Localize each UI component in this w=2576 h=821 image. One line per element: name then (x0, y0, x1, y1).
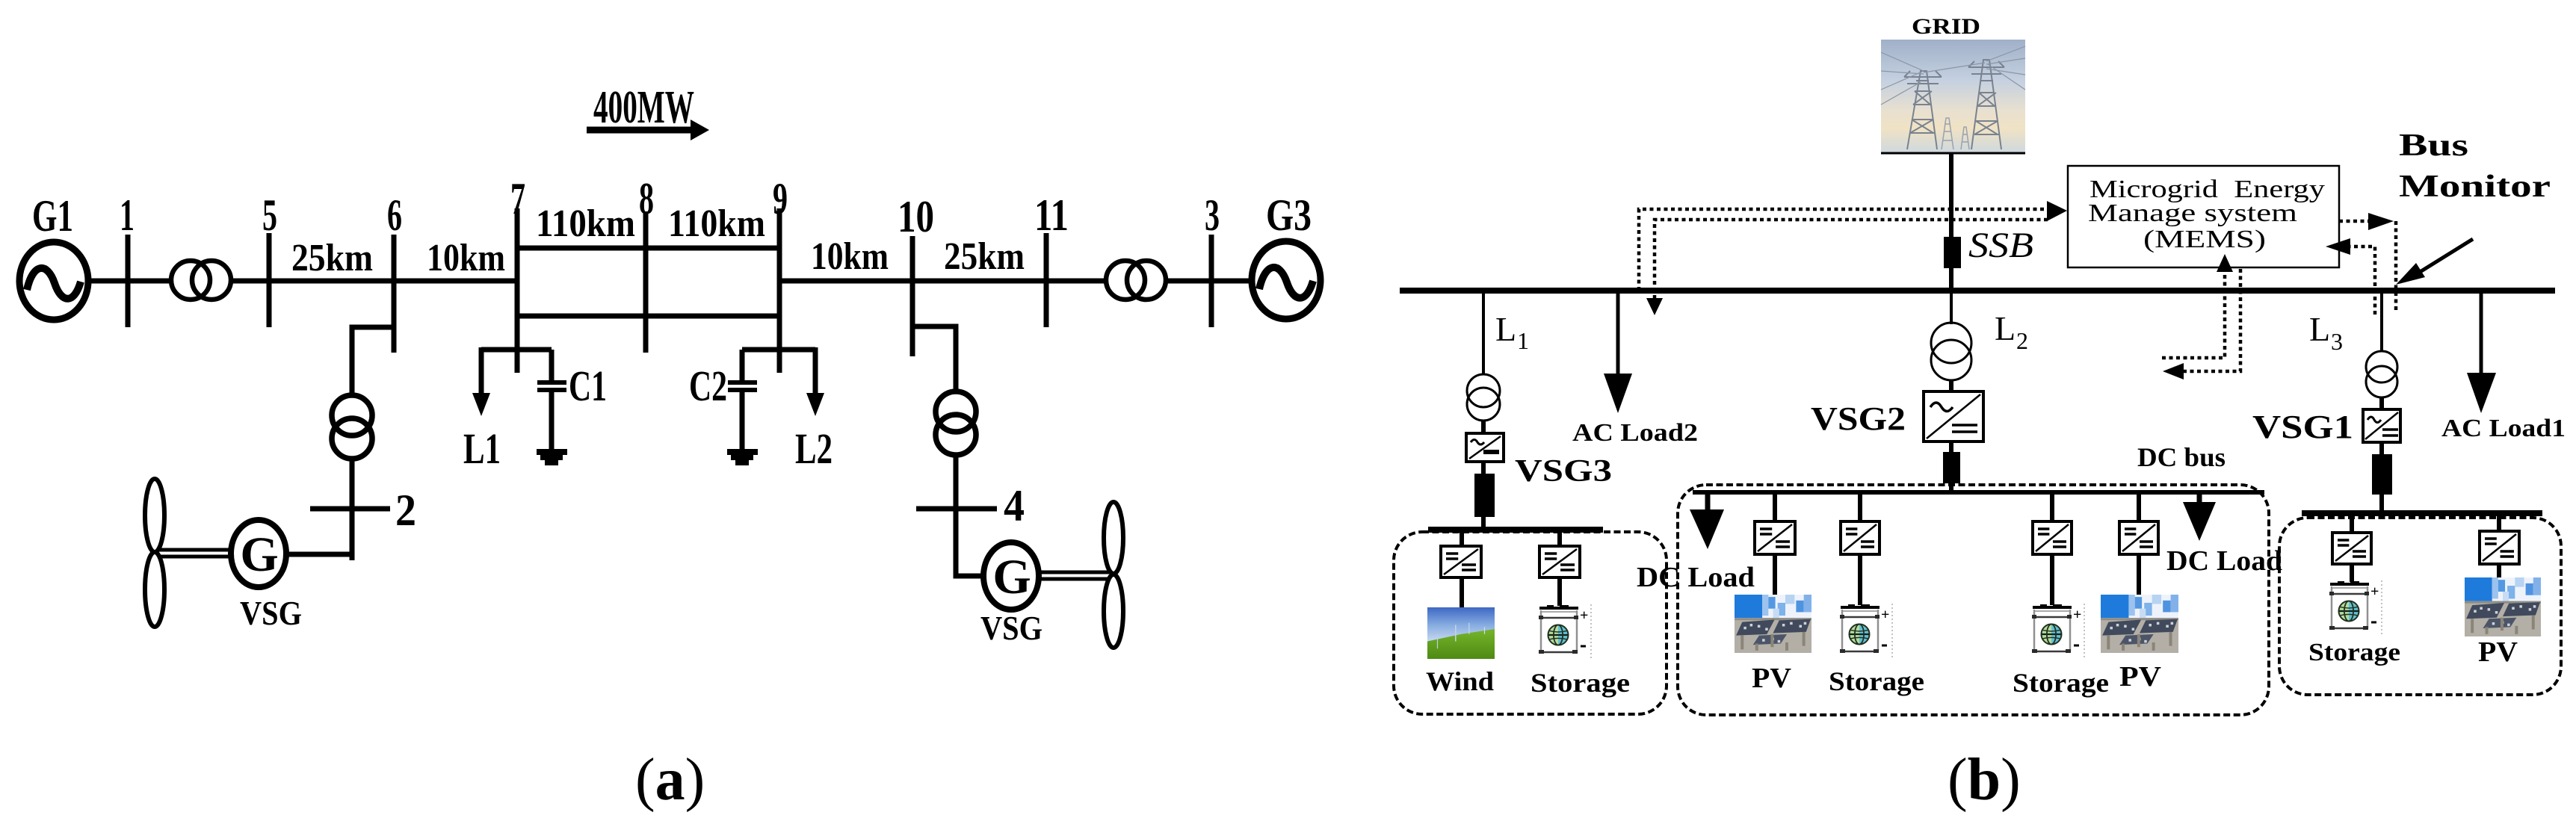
svg-text:Wind: Wind (1426, 666, 1494, 696)
svg-text:AC Load1: AC Load1 (2441, 415, 2566, 442)
wire bus to wind converter (1460, 532, 1464, 546)
node 4 bus bar (916, 506, 997, 512)
breaker VSG3 (1474, 474, 1495, 517)
converter PV2 DC/DC (2119, 521, 2158, 554)
wire L1 branch (1482, 293, 1485, 375)
wire breaker to DC bus (1949, 483, 1953, 493)
VSG3 converter box (1466, 433, 1504, 462)
svg-text:9: 9 (773, 174, 788, 223)
wire breaker to right DC bus (2379, 495, 2384, 512)
svg-text:Monitor: Monitor (2399, 170, 2551, 204)
generator G3 (1252, 241, 1321, 319)
svg-text:110km: 110km (668, 202, 765, 245)
transformer T3 (332, 395, 372, 459)
svg-text:PV: PV (1752, 663, 1792, 694)
svg-text:VSG3: VSG3 (1515, 454, 1612, 489)
wire converter to breaker VSG1 (2379, 442, 2384, 454)
wire DC bus to storage converter 2 (1858, 492, 1862, 521)
double line 7-9 upper (517, 246, 779, 251)
svg-text:VSG: VSG (240, 594, 302, 632)
svg-text:L: L (2309, 310, 2330, 348)
svg-text:1: 1 (1517, 327, 1529, 354)
wire to VSG1 converter (2379, 397, 2384, 409)
wire bus9 to transformer T2 (779, 279, 1108, 284)
dashed comm line B MEMS to bus arrow (1646, 220, 2048, 315)
svg-text:25km: 25km (291, 237, 373, 279)
dashed comm line D monitor point to MEMS (2326, 238, 2375, 315)
DC Load arrow left (1690, 492, 1724, 549)
svg-text:25km: 25km (944, 235, 1025, 278)
svg-text:DC Load: DC Load (1637, 562, 1755, 593)
node 2 bus bar (310, 506, 390, 512)
svg-text:400MW: 400MW (593, 82, 694, 133)
node 6 bus bar (392, 235, 397, 353)
svg-text:3: 3 (1205, 190, 1220, 240)
svg-text:VSG2: VSG2 (1811, 400, 1906, 437)
svg-text:1: 1 (120, 190, 135, 240)
svg-text:2: 2 (2016, 327, 2028, 354)
wire GRID to bus (1949, 154, 1953, 288)
svg-text:PV: PV (2478, 636, 2518, 668)
wire DC bus to storage converter 3 (2050, 492, 2054, 521)
svg-text:L1: L1 (463, 424, 501, 473)
svg-text:G: G (992, 550, 1031, 604)
svg-text:SSB: SSB (1968, 226, 2033, 265)
dashed comm line A bus to MEMS (1639, 201, 2067, 291)
wire T2 to G3 (1164, 279, 1253, 284)
VSG2 converter box (1924, 391, 1983, 442)
svg-text:2: 2 (395, 486, 416, 535)
wire to PV image 1 (1773, 554, 1777, 595)
wind turbine blades left (145, 479, 164, 627)
svg-text:7: 7 (510, 174, 525, 223)
svg-text:11: 11 (1034, 190, 1069, 240)
dashed comm line E up into MEMS (2162, 254, 2233, 358)
svg-text:Storage: Storage (1531, 668, 1630, 698)
label L1 (b) (1495, 310, 1529, 354)
converter PV3 DC/DC (2480, 531, 2519, 564)
PV image 1 (1735, 595, 1811, 653)
node 1 bus bar (126, 235, 131, 327)
VSG1 converter box (2363, 409, 2400, 442)
wire bus6 branch (352, 327, 394, 396)
transformer L2 (1931, 323, 1971, 380)
svg-text:G1: G1 (32, 191, 73, 241)
label Bus Monitor (2399, 128, 2551, 204)
transformer L3 (2366, 351, 2397, 397)
generator G1 (19, 242, 88, 320)
converter wind DC/DC (1441, 546, 1481, 577)
wire L2 branch (1950, 293, 1953, 324)
label L3 (b) (2309, 310, 2343, 355)
svg-text:+: + (1580, 607, 1588, 624)
converter storage4 DC/DC (2332, 533, 2371, 564)
node 7 bus bar (515, 208, 520, 373)
400MW flow arrow (587, 120, 709, 140)
dashed comm line F from MEMS down-left (2163, 269, 2240, 379)
ground at C1 (537, 449, 567, 465)
svg-text:Bus: Bus (2399, 128, 2468, 163)
converter PV1 DC/DC (1755, 521, 1795, 554)
PV image 3 (2465, 577, 2541, 636)
svg-text:3: 3 (2331, 328, 2343, 355)
svg-text:AC Load2: AC Load2 (1572, 419, 1698, 447)
wire C2-L2 branch (742, 347, 815, 353)
converter storage1 DC/DC (1539, 546, 1580, 577)
wind microgrid dashed box (1394, 532, 1667, 714)
svg-text:DC Load: DC Load (2166, 545, 2282, 577)
transformer T1 (171, 261, 231, 300)
svg-text:G3: G3 (1266, 190, 1312, 240)
node 11 bus bar (1044, 233, 1049, 327)
converter storage2 DC/DC (1841, 521, 1880, 554)
svg-text:(b): (b) (1948, 747, 2021, 813)
svg-text:4: 4 (1004, 481, 1025, 530)
wire DC bus to PV converter 4 (2137, 492, 2141, 521)
svg-text:Storage: Storage (2013, 668, 2109, 698)
svg-text:+: + (1881, 607, 1889, 623)
svg-text:C2: C2 (689, 362, 727, 410)
wire to storage 2 (1858, 554, 1862, 605)
AC Load2 arrow (1604, 293, 1632, 413)
storage icon 4 (2329, 580, 2382, 636)
wire L3 branch (2380, 293, 2383, 352)
node 5 bus bar (267, 233, 272, 327)
wire converter to breaker VSG2 (1949, 442, 1953, 452)
wire to storage 3 (2050, 554, 2054, 605)
wire converter to breaker (1481, 462, 1486, 474)
load L2 arrow (806, 347, 824, 416)
wire to VSG3 converter (1481, 420, 1486, 433)
node 8 bus bar (643, 211, 649, 353)
main AC bus (b) (1400, 288, 2555, 294)
svg-text:10km: 10km (427, 237, 505, 279)
wire breaker to wind bus (1481, 515, 1486, 529)
breaker VSG1 (2372, 454, 2392, 495)
GRID photo (1881, 40, 2025, 154)
wire to storage 4 (2350, 564, 2354, 582)
wire L1-C1 branch (481, 347, 552, 353)
converter storage3 DC/DC (2033, 521, 2072, 554)
wire T4 to generator corner right (956, 453, 985, 576)
transformer L1 (1467, 374, 1500, 421)
svg-text:10: 10 (898, 192, 934, 241)
node 9 bus bar (777, 208, 782, 373)
bus monitor arrow (2396, 239, 2473, 285)
svg-text:VSG1: VSG1 (2252, 409, 2353, 445)
wire bus to storage converter 1 (1557, 532, 1562, 546)
wire bus10 branch (912, 326, 956, 392)
turbine shaft right (1038, 572, 1109, 579)
AC Load1 arrow (2467, 293, 2496, 413)
wire to storage converter 4 (2350, 515, 2354, 533)
svg-text:L: L (1995, 309, 2016, 347)
svg-text:Manage system: Manage system (2088, 199, 2297, 227)
ground at C2 (727, 449, 758, 465)
transformer T4 (936, 391, 976, 455)
transformer T2 (1106, 261, 1166, 300)
svg-text:C1: C1 (569, 362, 607, 410)
PV image 2 (2101, 595, 2178, 653)
wire to PV converter 3 (2497, 515, 2501, 531)
svg-text:GRID: GRID (1912, 14, 1980, 39)
wire converter to wind image (1460, 577, 1464, 607)
wire to PV image 3 (2497, 564, 2501, 577)
svg-text:10km: 10km (811, 235, 889, 278)
wind image (1427, 607, 1495, 659)
wire G1 to transformer T1 (87, 279, 173, 284)
node 10 bus bar (910, 236, 915, 356)
svg-text:L: L (1495, 310, 1516, 348)
svg-text:(MEMS): (MEMS) (2143, 226, 2266, 253)
storage icon 3 (2032, 604, 2084, 659)
wire to VSG2 converter (1949, 379, 1953, 391)
svg-text:Storage: Storage (1829, 666, 1924, 696)
turbine shaft left (158, 550, 232, 557)
svg-text:(a): (a) (635, 747, 705, 813)
svg-text:5: 5 (262, 190, 277, 240)
wire T3 to generator corner (288, 456, 352, 560)
svg-text:G: G (240, 527, 278, 582)
load L1 arrow (472, 347, 490, 416)
svg-text:VSG: VSG (980, 609, 1043, 647)
right DC bus bar (2302, 510, 2542, 516)
svg-text:+: + (2073, 607, 2081, 623)
MEMS box (2068, 166, 2339, 267)
dashed comm line C MEMS to monitor point (2339, 213, 2396, 312)
wind turbine blades right (1104, 502, 1123, 648)
svg-text:110km: 110km (536, 202, 635, 245)
capacitor C1 (537, 350, 566, 449)
storage icon 2 (1840, 604, 1892, 659)
VSG generator G left (231, 520, 286, 587)
double line 7-9 lower (517, 314, 779, 319)
wire DC bus to PV converter 1 (1773, 492, 1777, 521)
svg-text:DC bus: DC bus (2137, 442, 2226, 472)
node 3 bus bar (1209, 235, 1214, 327)
svg-text:6: 6 (387, 190, 402, 240)
right DC microgrid dashed box (2279, 518, 2561, 695)
svg-text:+: + (2370, 583, 2379, 600)
svg-text:Storage: Storage (2308, 639, 2400, 666)
storage icon 1 (1539, 604, 1591, 660)
VSG generator G right (983, 542, 1039, 610)
wire to PV image 2 (2137, 554, 2141, 595)
DC Load arrow right (2183, 492, 2216, 541)
wire T1 to bus 7 (229, 279, 517, 284)
svg-text:PV: PV (2119, 661, 2162, 693)
capacitor C2 (728, 350, 757, 449)
label L2 (b) (1995, 309, 2028, 354)
svg-text:8: 8 (639, 174, 654, 223)
wire converter to storage 1 (1557, 577, 1562, 606)
DC bus solid line (1693, 490, 2264, 495)
breaker VSG2 (1943, 452, 1960, 483)
breaker SSB (1944, 237, 1961, 268)
wind microgrid bus bar (1428, 527, 1603, 533)
svg-text:L2: L2 (795, 424, 833, 473)
DC microgrid dashed box middle (1678, 485, 2269, 715)
